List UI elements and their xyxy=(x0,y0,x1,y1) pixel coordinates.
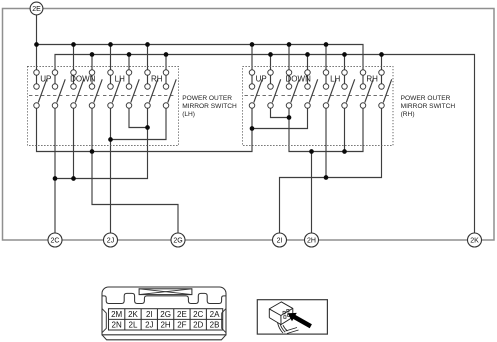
wire RH-col6 stub xyxy=(344,106,346,152)
junction RH-col6 end xyxy=(342,149,347,154)
svg-text:2G: 2G xyxy=(160,310,171,319)
junction bus2 x=382 xyxy=(379,52,384,57)
wire LH-col4 to terminal 2G xyxy=(92,106,178,234)
svg-text:2I: 2I xyxy=(146,310,153,319)
wire bus1 drop x=110 xyxy=(110,45,112,73)
switch UP (RH) mechanical link xyxy=(245,95,279,97)
junction bus2 x=92 xyxy=(90,52,95,57)
junction bus2 x=166 xyxy=(164,52,169,57)
connector 2 keyway tab with cross xyxy=(139,289,192,295)
wire RH-col4 to col1 link xyxy=(252,106,308,129)
svg-text:LH: LH xyxy=(115,75,125,84)
legend wires xyxy=(278,323,284,334)
junction bus1 x=326 xyxy=(324,42,329,47)
svg-text:2D: 2D xyxy=(193,321,203,330)
svg-text:UP: UP xyxy=(40,75,51,84)
RH mirror switch dashed enclosure xyxy=(243,67,394,146)
switch UP (LH) pole x=36 xyxy=(34,70,47,109)
connector 2 face outline xyxy=(102,287,226,335)
svg-text:RH: RH xyxy=(151,75,163,84)
wire LH-col6 to col7 link xyxy=(129,106,148,128)
switch DOWN (RH) pole x=289 xyxy=(286,70,299,109)
switch UP (LH) mechanical link xyxy=(29,95,63,97)
junction RH-col3/col2 xyxy=(287,115,292,120)
svg-text:2H: 2H xyxy=(307,238,316,245)
junction bus1 x=289 xyxy=(287,42,292,47)
wire bus2 drop x=382 xyxy=(381,55,383,73)
wire bus1 drop x=252 xyxy=(251,45,253,73)
wire bus2 drop x=129 xyxy=(128,55,130,73)
wire bus2 drop x=344 xyxy=(344,55,346,73)
junction 2H drop xyxy=(309,149,314,154)
connector 2 right wing xyxy=(222,309,226,333)
switch RH (RH) pole x=363 xyxy=(360,70,373,109)
terminal 2C xyxy=(48,233,62,247)
junction bus1 x=110 xyxy=(108,42,113,47)
switch LH (LH) pole x=129 xyxy=(126,70,139,109)
wire drop to terminal 2H xyxy=(311,152,313,234)
switch DOWN (RH) pole x=308 xyxy=(305,70,318,109)
svg-text:2H: 2H xyxy=(160,321,170,330)
svg-text:DOWN: DOWN xyxy=(286,75,312,84)
svg-text:2I: 2I xyxy=(277,238,283,245)
wire 2E feed vertical xyxy=(36,9,38,73)
switch DOWN (LH) pole x=92 xyxy=(89,70,102,109)
switch LH (RH) pole x=326 xyxy=(323,70,336,109)
junction bus1 x=252 xyxy=(250,42,255,47)
connector 2 bottom skirt xyxy=(102,335,226,340)
svg-text:UP: UP xyxy=(256,75,267,84)
svg-text:2B: 2B xyxy=(210,321,220,330)
connector 2 latch profile line xyxy=(102,293,226,303)
legend arrow xyxy=(288,313,312,328)
wire LH-col7 to col2 link xyxy=(55,106,148,179)
terminal 2G xyxy=(171,233,185,247)
wire RH-col3 to col7 link xyxy=(289,106,363,152)
wire LH-col1 to RH-col1 common link xyxy=(37,106,253,152)
wire LH-col5 to terminal 2J xyxy=(110,106,112,234)
junction bus2 x=129 xyxy=(127,52,132,57)
wire bus1 from 2E to switches xyxy=(37,45,364,73)
svg-text:2J: 2J xyxy=(107,238,114,245)
terminal 2K xyxy=(468,233,482,247)
legend connector icon xyxy=(269,302,298,334)
switch LH (RH) pole x=344 xyxy=(342,70,355,109)
switch UP (RH) pole x=270 xyxy=(268,70,281,109)
switch LH (LH) mechanical link xyxy=(103,95,137,97)
terminal 2H xyxy=(305,233,319,247)
junction bus2 x=308 xyxy=(305,52,310,57)
wire bus2 drop x=166 xyxy=(165,55,167,73)
legend box xyxy=(257,300,327,334)
svg-text:2C: 2C xyxy=(193,310,203,319)
junction RH-col5 on 2I link xyxy=(324,175,329,180)
junction RH-col1/col4 xyxy=(250,126,255,131)
wire bus2 drop x=270 xyxy=(270,55,272,73)
connector 2 pin grid xyxy=(109,309,223,330)
wire bus1 drop x=289 xyxy=(288,45,290,73)
terminal 2J xyxy=(104,233,118,247)
LH mirror switch dashed enclosure xyxy=(28,67,179,146)
wire RH-col2 to col3 link xyxy=(271,106,290,118)
junction LH-col5/col8 xyxy=(108,137,113,142)
switch UP (RH) pole x=252 xyxy=(249,70,262,109)
svg-text:2F: 2F xyxy=(177,321,186,330)
wire bus2 to terminal 2K xyxy=(55,55,475,234)
switch RH (LH) pole x=166 xyxy=(163,70,176,109)
junction LH-col7/col6 xyxy=(145,125,150,130)
svg-text:2G: 2G xyxy=(173,238,182,245)
svg-text:2E: 2E xyxy=(177,310,187,319)
svg-text:2M: 2M xyxy=(111,310,122,319)
junction LH-col2 pass xyxy=(53,176,58,181)
switch LH (LH) pole x=110 xyxy=(108,70,121,109)
connector 2 left wing xyxy=(102,309,106,333)
switch UP (LH) pole x=55 xyxy=(52,70,65,109)
wire RH-col8 to terminal 2I xyxy=(280,106,382,234)
svg-text:RH: RH xyxy=(366,75,378,84)
wire LH-col8 to col5 link xyxy=(111,106,167,140)
svg-text:2L: 2L xyxy=(129,321,138,330)
junction bus1 at 2E xyxy=(34,42,39,47)
harness connector 2 outline border xyxy=(3,9,495,241)
wire bus1 drop x=74 xyxy=(73,45,75,73)
terminal 2I xyxy=(273,233,287,247)
wire bus2 drop x=308 xyxy=(307,55,309,73)
terminal 2E xyxy=(30,2,43,15)
junction LH-col4 on common link xyxy=(90,149,95,154)
wire RH-col5 stub xyxy=(325,106,327,178)
switch RH (RH) pole x=382 xyxy=(379,70,392,109)
wire bus2 drop x=92 xyxy=(91,55,93,73)
switch RH (LH) pole x=148 xyxy=(145,70,158,109)
svg-text:2A: 2A xyxy=(210,310,220,319)
svg-text:2K: 2K xyxy=(128,310,138,319)
svg-text:2C: 2C xyxy=(51,238,60,245)
junction bus1 x=148 xyxy=(145,42,150,47)
switch DOWN (LH) mechanical link xyxy=(66,95,100,97)
switch RH (LH) mechanical link xyxy=(140,95,174,97)
switch DOWN (RH) mechanical link xyxy=(282,95,316,97)
switch RH (RH) mechanical link xyxy=(356,95,390,97)
wire bus1 drop x=326 xyxy=(325,45,327,73)
svg-text:LH: LH xyxy=(330,75,340,84)
switch LH (RH) mechanical link xyxy=(319,95,353,97)
wire LH-col2 to terminal 2C xyxy=(54,106,56,234)
wire LH-col3 stub xyxy=(73,106,75,179)
wire bus1 drop x=148 xyxy=(147,45,149,73)
svg-text:2K: 2K xyxy=(470,238,479,245)
svg-text:2E: 2E xyxy=(32,6,41,13)
junction bus1 x=74 xyxy=(71,42,76,47)
junction LH-col3 end xyxy=(71,176,76,181)
svg-text:2J: 2J xyxy=(145,321,153,330)
switch DOWN (LH) pole x=74 xyxy=(71,70,84,109)
svg-text:2N: 2N xyxy=(112,321,122,330)
junction bus2 x=270 xyxy=(268,52,273,57)
junction bus2 x=344 xyxy=(342,52,347,57)
svg-text:DOWN: DOWN xyxy=(70,75,96,84)
